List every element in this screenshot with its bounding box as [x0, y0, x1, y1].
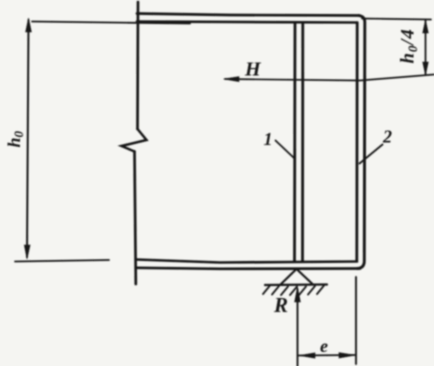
- support hatching: [263, 286, 324, 296]
- label R: [273, 293, 288, 317]
- dimension h0/4 top arrowhead: [423, 20, 429, 33]
- dimension h0 bottom extension line: [15, 260, 109, 262]
- force H line: [225, 75, 434, 81]
- dimension e left arrowhead: [299, 353, 315, 358]
- girder left edge line lower part: [135, 152, 136, 285]
- label 1: [264, 129, 273, 149]
- svg-text:2: 2: [382, 127, 392, 147]
- svg-text:e: e: [320, 336, 328, 356]
- leader line for label 2: [360, 145, 383, 164]
- dimension e right arrowhead: [339, 353, 355, 358]
- dimension h0/4 top extension line: [362, 19, 431, 20]
- break symbol on left edge: [122, 129, 147, 152]
- label H: [244, 59, 262, 81]
- svg-text:1: 1: [264, 129, 273, 149]
- label h0/4: [398, 28, 421, 63]
- label 2: [382, 127, 392, 147]
- top chord upper line: [137, 14, 359, 16]
- bottom chord lower line: [136, 268, 360, 269]
- girder left edge line upper part: [136, 2, 139, 129]
- end post 2 inner line: [355, 23, 358, 262]
- dimension h0 vertical line: [27, 20, 29, 257]
- dimension h0 top extension line: [32, 22, 190, 24]
- bottom chord upper line: [136, 260, 357, 263]
- reaction R arrowhead: [295, 287, 301, 302]
- top chord lower line: [137, 22, 356, 23]
- svg-text:R: R: [273, 293, 288, 317]
- dimension h0/4 vertical line: [425, 20, 427, 75]
- dimension h0 top arrowhead: [26, 18, 32, 32]
- reaction R line: [297, 289, 299, 366]
- leader line for label 1: [276, 141, 295, 159]
- dimension e line: [299, 354, 356, 357]
- dimension h0/4 bottom arrowhead: [423, 62, 429, 75]
- support ground line: [265, 283, 327, 286]
- force H arrowhead: [224, 77, 240, 82]
- end post 2 outer line: [358, 16, 365, 269]
- stiffener 1 right line: [301, 23, 304, 262]
- stiffener 1 left line: [293, 23, 296, 262]
- pin support triangle: [281, 269, 313, 284]
- dimension e right extension line: [355, 277, 357, 364]
- label e: [320, 336, 328, 356]
- label h0: [4, 130, 26, 147]
- dimension h0 bottom arrowhead: [24, 245, 30, 259]
- svg-text:H: H: [244, 59, 262, 81]
